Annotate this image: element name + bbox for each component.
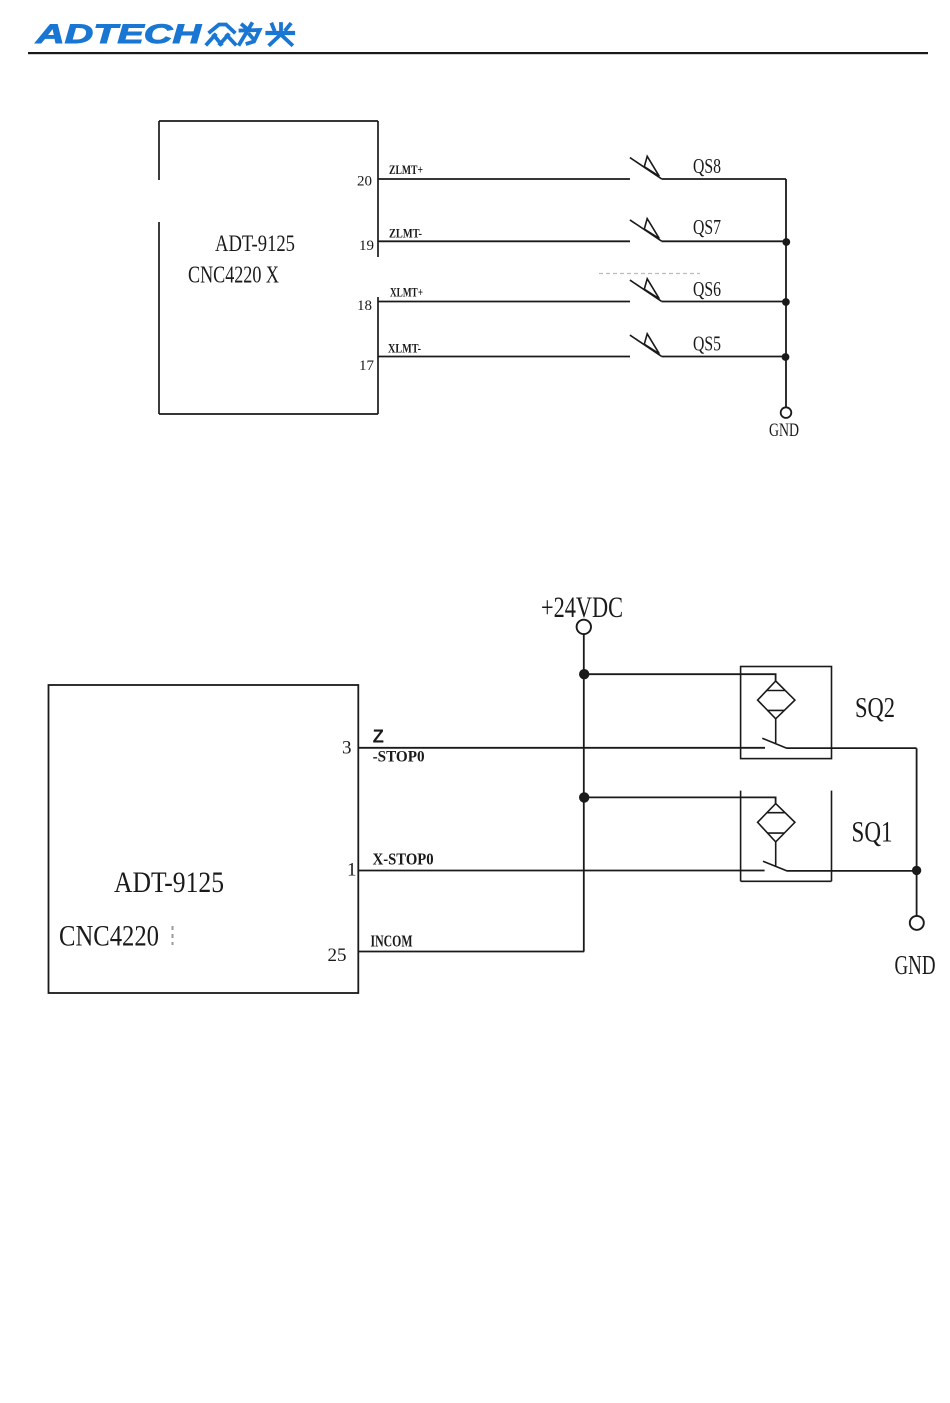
switch QS7 [630,219,662,242]
svg-text:Z: Z [373,726,384,747]
logo chinese characters 众为兴 [207,24,293,45]
text ADT-9125 (bottom box) [114,866,224,899]
junction dot QS6/bus [782,298,790,306]
wire pin3 to SQ2 contact [358,747,765,749]
svg-text:CNC4220: CNC4220 [59,920,159,953]
label QS8 [693,154,721,178]
logo ADTECH wordmark [35,19,202,49]
proximity switch SQ1 box (open top) [741,791,832,882]
pin 17 number [359,358,375,374]
+24VDC vertical supply wire [583,634,585,951]
svg-text:X-STOP0: X-STOP0 [373,850,434,869]
pin 19 number [359,238,374,254]
svg-text:ADT-9125: ADT-9125 [215,231,295,256]
switch QS5 [630,334,662,357]
svg-text:ADTECH: ADTECH [35,19,202,49]
junction dot supply/SQ2 [579,669,589,679]
svg-text:SQ2: SQ2 [855,692,895,724]
+24VDC terminal circle [577,620,591,634]
faint colon artifact after CNC4220 [172,926,174,945]
svg-text:XLMT+: XLMT+ [390,285,423,300]
pin 1 number [347,860,357,881]
SQ2 contact blade [762,738,786,748]
proximity switch SQ2 box [741,667,832,759]
svg-text:SQ1: SQ1 [852,816,893,849]
svg-text:INCOM: INCOM [371,932,413,951]
GND terminal circle (bottom diagram) [910,916,924,930]
svg-text:QS5: QS5 [693,331,721,355]
net label ZLMT+ [389,162,423,177]
SQ1 contact blade [763,861,787,871]
label SQ2 [855,692,895,724]
svg-text:GND: GND [769,420,799,441]
text CNC4220 X (top box) [188,263,279,289]
pin 18 number [357,298,372,314]
svg-text:3: 3 [342,738,352,759]
wire QS5 to bus [662,356,787,358]
pin 25 number [328,945,347,966]
switch QS8 [630,156,662,179]
svg-text:QS8: QS8 [693,154,721,178]
wire pin18 to switch QS6 [378,301,630,303]
header rule [28,52,928,54]
svg-text:ZLMT-: ZLMT- [389,225,422,240]
label QS7 [693,215,721,239]
svg-text:1: 1 [347,860,357,881]
switch QS6 [630,279,662,302]
svg-text:17: 17 [359,358,375,374]
SQ1 sensor diamond [758,804,795,842]
SQ1 stem [775,842,777,866]
GND label (top diagram) [769,420,799,441]
net label ZLMT- [389,225,422,240]
label QS5 [693,331,721,355]
wire SQ2 output [786,747,916,749]
wire QS7 to bus [662,240,787,242]
pin 20 number [357,174,372,190]
net label X-STOP0 [373,850,434,869]
SQ2 stem [775,719,777,744]
net label INCOM [371,932,413,951]
GND terminal circle (top diagram) [781,407,792,418]
wire pin20 to switch QS8 [378,178,630,180]
svg-text:18: 18 [357,298,372,314]
label SQ1 [852,816,893,849]
net label XLMT+ [390,285,423,300]
+24VDC label [541,591,623,624]
svg-text:25: 25 [328,945,347,966]
wire QS6 to bus [662,301,787,303]
svg-text:ADT-9125: ADT-9125 [114,866,224,899]
controller box ADT-9125 CNC4220 X [159,121,378,414]
wire pin25 INCOM to supply vertical [358,951,584,953]
text ADT-9125 (top box) [215,231,295,256]
junction dot supply/SQ1 [579,792,589,802]
faint scan artifact dashed line [599,273,700,275]
svg-text:XLMT-: XLMT- [388,340,421,355]
svg-text:GND: GND [895,950,936,980]
right vertical wire SQ2 output down to GND [916,748,918,916]
svg-text:QS6: QS6 [693,277,721,301]
junction dot SQ1 output [912,866,921,875]
GND label (bottom diagram) [895,950,936,980]
wire supply to SQ1 sensor [584,797,775,803]
svg-text:ZLMT+: ZLMT+ [389,162,423,177]
text CNC4220 (bottom box) [59,920,159,953]
wire SQ1 output [786,870,916,872]
svg-text:19: 19 [359,238,374,254]
svg-text:CNC4220 X: CNC4220 X [188,263,279,289]
svg-text:20: 20 [357,174,372,190]
net label Z [373,726,384,747]
wire QS8 to bus [662,178,787,180]
junction dot QS5/bus [782,353,790,361]
junction dot QS7/bus [782,238,790,246]
wire pin19 to switch QS7 [378,240,630,242]
wire pin1 to SQ1 contact [358,870,764,872]
svg-text:QS7: QS7 [693,215,721,239]
bus wire to GND [785,179,787,407]
label QS6 [693,277,721,301]
net label XLMT- [388,340,421,355]
wire supply to SQ2 sensor [584,674,775,681]
SQ2 sensor diamond [758,681,795,719]
controller box ADT-9125 CNC4220 (bottom) [49,685,359,993]
svg-text:-STOP0: -STOP0 [373,749,425,766]
wire pin17 to switch QS5 [378,356,630,358]
net label -STOP0 [373,749,425,766]
pin 3 number [342,738,352,759]
